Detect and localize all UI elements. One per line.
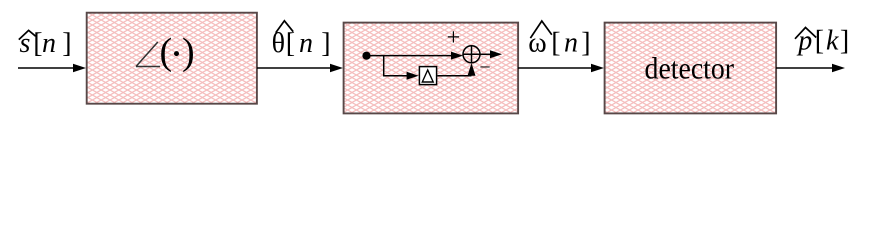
svg-text:p[k]: p[k]	[796, 26, 849, 57]
svg-text:−: −	[479, 57, 490, 79]
svg-text:+: +	[447, 25, 461, 51]
svg-text:(: (	[160, 31, 173, 73]
svg-text:ω[n]: ω[n]	[528, 28, 590, 59]
svg-text:θ[n]: θ[n]	[272, 28, 331, 59]
svg-text:): )	[182, 31, 195, 73]
svg-text:detector: detector	[645, 50, 735, 85]
